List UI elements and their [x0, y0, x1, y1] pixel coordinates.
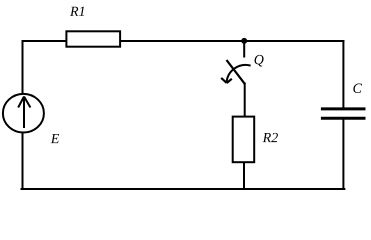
wire R2 to bottom [243, 163, 245, 189]
switch Q swing arc [227, 65, 251, 82]
label R2 [263, 133, 278, 142]
resistor R2 [233, 117, 255, 163]
capacitor C top plate [321, 107, 366, 110]
capacitor C bottom plate [321, 117, 366, 120]
label C [353, 84, 362, 93]
wire left vertical upper [22, 41, 24, 94]
wire top-left (source to R1) [23, 40, 67, 42]
wire right vertical lower [342, 120, 344, 189]
wire top-right (R1 to right corner) [121, 40, 344, 42]
wire left vertical lower [22, 133, 24, 189]
wire right vertical upper [342, 41, 344, 108]
label Q [255, 55, 264, 67]
wire switch stub from junction [243, 41, 245, 57]
wire switch pivot to R2 [244, 84, 246, 117]
resistor R1 [66, 31, 120, 46]
switch Q blade [227, 60, 246, 84]
wire bottom [22, 188, 345, 190]
node junction dot [241, 38, 247, 44]
label R1 [70, 7, 84, 16]
switch Q arc arrowhead [221, 78, 232, 83]
source E [3, 94, 44, 133]
label E [51, 134, 59, 143]
